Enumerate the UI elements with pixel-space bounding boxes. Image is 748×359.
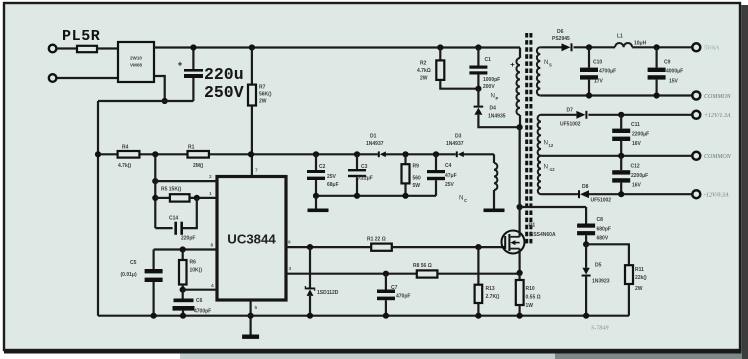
svg-text:C: C — [464, 198, 467, 203]
svg-text:C2: C2 — [319, 164, 326, 170]
svg-text:2.7K(): 2.7K() — [486, 294, 500, 300]
wire — [251, 106, 253, 177]
wire — [588, 114, 691, 116]
svg-text:8: 8 — [211, 243, 214, 249]
svg-text:17V: 17V — [594, 79, 604, 85]
svg-text:0.55 Ω: 0.55 Ω — [526, 295, 541, 301]
svg-text:D3: D3 — [455, 134, 462, 140]
junction — [618, 153, 624, 159]
svg-text:3: 3 — [289, 266, 292, 272]
capacitor C1 1000pF 200V — [475, 44, 481, 50]
svg-text:12: 12 — [549, 143, 554, 148]
svg-text:16V: 16V — [632, 141, 642, 147]
svg-text:SSS4N60A: SSS4N60A — [530, 232, 556, 238]
transformer primary winding Np — [519, 48, 521, 59]
node output COMMON — [692, 92, 700, 100]
svg-text:220u: 220u — [204, 65, 244, 84]
junction — [313, 193, 319, 199]
svg-text:UF51002: UF51002 — [591, 198, 612, 204]
wire — [632, 46, 692, 48]
ground pin5 — [242, 335, 259, 339]
svg-text:C9: C9 — [664, 60, 671, 66]
svg-text:2: 2 — [209, 174, 212, 180]
wire VCC rail — [98, 153, 118, 155]
svg-text:4000μF: 4000μF — [666, 69, 683, 75]
resistor R1 2M — [188, 151, 209, 158]
pin 3 sense wire — [286, 273, 417, 275]
junction source — [517, 270, 523, 276]
junction — [95, 151, 101, 157]
bridge rectifier 2W10 — [118, 42, 154, 82]
op-amp U1 UC3844 — [217, 177, 286, 301]
svg-text:2W: 2W — [259, 99, 267, 105]
transformer secondary Ns — [537, 47, 540, 95]
transformer secondary N-12 — [538, 156, 541, 194]
junction — [180, 313, 186, 319]
resistor R5 15K — [152, 195, 158, 201]
svg-text:4: 4 — [211, 283, 214, 289]
svg-text:25V: 25V — [327, 174, 337, 180]
svg-text:D7: D7 — [567, 108, 574, 114]
resistor R7 56K 2W startup — [249, 44, 255, 50]
svg-text:R6: R6 — [190, 260, 197, 266]
capacitor C12 2200uF 16V — [620, 156, 622, 170]
wire + HV rail — [154, 46, 520, 48]
diode D7 UF51002 — [541, 114, 576, 116]
junction — [151, 313, 157, 319]
capacitor C6 4700pF — [182, 290, 184, 299]
svg-text:4700μF: 4700μF — [599, 69, 616, 75]
junction — [190, 44, 196, 50]
junction — [618, 112, 624, 118]
capacitor C5 0.01uF — [153, 250, 155, 270]
svg-text:N: N — [544, 164, 548, 171]
diode D3 1N4937 — [458, 151, 464, 157]
wire HV minus rail — [98, 100, 193, 102]
svg-text:C12: C12 — [631, 164, 640, 170]
wire bridge minus lead — [154, 76, 165, 101]
svg-text:R5 15K(): R5 15K() — [161, 187, 182, 193]
svg-text:C3: C3 — [361, 164, 368, 170]
svg-text:R7: R7 — [259, 85, 266, 91]
svg-text:560: 560 — [413, 176, 422, 182]
svg-text:10μH: 10μH — [634, 41, 647, 47]
svg-text:C5: C5 — [130, 260, 137, 266]
fusible resistor PL5R — [77, 46, 97, 52]
svg-text:C6: C6 — [196, 298, 203, 304]
capacitor C9 4000uF — [655, 47, 657, 67]
wire bottom rail — [98, 315, 629, 317]
junction — [354, 193, 360, 199]
svg-text:VM08: VM08 — [130, 63, 142, 68]
svg-text:1: 1 — [209, 191, 212, 197]
svg-text:P: P — [496, 96, 499, 101]
zener HSD112D — [307, 244, 313, 250]
svg-text:N: N — [544, 140, 548, 147]
svg-text:10K(): 10K() — [190, 268, 203, 274]
wire — [97, 47, 118, 49]
svg-text:R9: R9 — [413, 164, 420, 170]
svg-text:5V/6A: 5V/6A — [704, 46, 719, 52]
svg-text:COMMON: COMMON — [704, 94, 732, 100]
svg-text:Q1: Q1 — [529, 223, 536, 229]
svg-text:1000pF: 1000pF — [483, 77, 500, 83]
svg-text:R13: R13 — [486, 286, 495, 292]
svg-text:R1 22 Ω: R1 22 Ω — [367, 236, 386, 242]
resistor R6 10K — [180, 246, 186, 252]
svg-text:COMMON: COMMON — [704, 154, 732, 160]
svg-text:250V: 250V — [204, 83, 244, 102]
pin 5 ground wire — [250, 300, 252, 335]
winding Nc bias — [493, 154, 495, 163]
svg-text:47μF: 47μF — [445, 173, 457, 179]
svg-text:6: 6 — [288, 240, 291, 246]
junction — [248, 313, 254, 319]
svg-text:PS2945: PS2945 — [552, 36, 570, 42]
svg-text:D6: D6 — [557, 29, 564, 35]
node output -12V/0.3A — [692, 190, 700, 198]
svg-text:680pF: 680pF — [597, 227, 611, 233]
svg-text:5: 5 — [255, 305, 258, 311]
capacitor C2 68uF 25V — [313, 151, 319, 157]
junction — [586, 92, 592, 98]
svg-text:2W: 2W — [635, 286, 643, 292]
junction — [654, 92, 660, 98]
svg-text:+12V/1.3A: +12V/1.3A — [704, 113, 731, 119]
svg-text:UC3844: UC3844 — [227, 232, 276, 247]
wire sub rail — [316, 195, 436, 197]
svg-text:R4: R4 — [122, 144, 129, 150]
ground under Nc — [484, 209, 505, 213]
resistor R9 560 5W — [402, 151, 408, 157]
svg-text:1SD112D: 1SD112D — [317, 290, 339, 296]
node AC input terminal 2 — [49, 74, 57, 82]
svg-text:2200μF: 2200μF — [631, 173, 648, 179]
svg-text:N: N — [459, 195, 463, 202]
ground under C2 — [315, 196, 317, 209]
svg-text:+: + — [178, 60, 183, 69]
pin 8 wire VREF — [154, 248, 217, 250]
svg-text:4.7k(): 4.7k() — [118, 163, 131, 169]
svg-text:N: N — [544, 59, 548, 66]
svg-text:-12: -12 — [549, 167, 556, 172]
capacitor C8 680pF 680V — [577, 224, 595, 228]
svg-text:C14: C14 — [169, 216, 178, 222]
pin 2 wire — [152, 178, 158, 184]
transistor Q1 MOSFET — [517, 204, 523, 210]
resistor R10 0.55ohm 1W — [518, 273, 520, 280]
svg-text:1N3923: 1N3923 — [592, 279, 610, 285]
svg-text:C11: C11 — [631, 122, 640, 128]
svg-text:R2: R2 — [420, 61, 427, 67]
svg-text:2W10: 2W10 — [130, 56, 142, 61]
svg-text:1N4937: 1N4937 — [366, 141, 384, 147]
diode D1 1N4937 — [380, 151, 386, 157]
capacitor C4 47uF 25V — [433, 151, 439, 157]
diode D5 1N3923 — [585, 244, 587, 267]
wire — [57, 47, 77, 49]
svg-text:22k(): 22k() — [635, 275, 647, 281]
capacitor 220u 250V — [192, 48, 194, 70]
svg-text:4.7kΩ: 4.7kΩ — [417, 68, 431, 74]
node output 5V/6A — [692, 43, 700, 51]
wire common row — [540, 94, 692, 96]
svg-text:5W: 5W — [413, 183, 421, 189]
svg-text:-12V/0.3A: -12V/0.3A — [704, 193, 729, 199]
pin 4 wire — [183, 289, 217, 291]
junction — [583, 241, 589, 247]
svg-text:D8: D8 — [582, 184, 589, 190]
svg-text:+: + — [510, 60, 515, 69]
junction — [517, 124, 523, 130]
junction — [162, 98, 168, 104]
svg-text:R11: R11 — [635, 267, 644, 273]
diode D4 clamp — [477, 89, 479, 106]
junction — [586, 44, 592, 50]
svg-text:C7: C7 — [391, 285, 398, 291]
resistor R2 4.7k 2W — [437, 44, 443, 50]
capacitor C7 470pF — [383, 271, 389, 277]
wire left bus down — [97, 101, 99, 316]
svg-text:D4: D4 — [490, 106, 497, 112]
node output COMMON 2 — [692, 152, 700, 160]
resistor R8 56ohm — [417, 270, 438, 277]
inductor L1 — [615, 43, 632, 47]
svg-text:16V: 16V — [632, 182, 642, 188]
svg-text:2W: 2W — [420, 76, 428, 82]
wire — [574, 46, 616, 48]
wire drain branch — [520, 206, 587, 208]
junction — [654, 44, 660, 50]
capacitor C14 220pF — [155, 227, 172, 229]
svg-text:2M(): 2M() — [193, 163, 204, 169]
frame shadow right — [741, 5, 748, 359]
svg-text:UF51002: UF51002 — [560, 122, 581, 128]
svg-text:R10: R10 — [526, 286, 535, 292]
svg-text:C4: C4 — [445, 163, 452, 169]
svg-text:68μF: 68μF — [327, 182, 339, 188]
node AC input terminal 1 — [49, 45, 57, 53]
resistor R1 22ohm gate — [371, 244, 392, 251]
svg-text:L1: L1 — [617, 34, 623, 40]
svg-text:680V: 680V — [597, 236, 609, 242]
junction node FB — [152, 151, 158, 157]
svg-text:S-7849: S-7849 — [591, 325, 609, 332]
svg-text:25V: 25V — [445, 182, 455, 188]
svg-text:S: S — [549, 62, 552, 67]
resistor R4 4.7k — [118, 151, 140, 158]
svg-text:7: 7 — [255, 168, 258, 174]
svg-text:D5: D5 — [595, 263, 602, 269]
wire — [57, 77, 118, 79]
svg-text:N: N — [491, 93, 495, 100]
pin 6 gate wire — [286, 246, 371, 248]
junction VCC — [248, 151, 254, 157]
svg-text:4700pF: 4700pF — [194, 309, 211, 315]
diode D8 UF51002 — [541, 193, 578, 195]
svg-text:(0.01μ): (0.01μ) — [121, 272, 137, 278]
capacitor C10 4700uF — [588, 47, 590, 67]
frame shadow bottom — [180, 354, 560, 359]
capacitor C11 2200uF 16V — [620, 115, 622, 129]
svg-text:220pF: 220pF — [181, 236, 195, 242]
wire FB vertical — [154, 154, 156, 228]
svg-text:470pF: 470pF — [396, 294, 410, 300]
svg-text:C1: C1 — [485, 57, 492, 63]
resistor R13 gate bleeder — [475, 244, 481, 250]
svg-text:200V: 200V — [483, 84, 495, 90]
svg-text:56K(): 56K() — [259, 92, 272, 98]
svg-text:C10: C10 — [593, 60, 602, 66]
wire mid common row — [541, 155, 692, 157]
svg-text:0.22μF: 0.22μF — [357, 176, 373, 182]
wire — [589, 193, 692, 195]
svg-text:D1: D1 — [370, 134, 377, 140]
svg-text:PL5R: PL5R — [62, 28, 100, 45]
svg-text:15V: 15V — [669, 79, 679, 85]
svg-text:2200μF: 2200μF — [632, 132, 649, 138]
diode D6 PS2945 — [540, 46, 561, 48]
svg-text:C8: C8 — [597, 217, 604, 223]
transformer secondary N12 — [538, 115, 541, 156]
node output +12V/1.3A — [692, 111, 700, 119]
svg-text:1N4935: 1N4935 — [488, 114, 506, 120]
svg-text:R1: R1 — [188, 144, 195, 150]
svg-text:1N4937: 1N4937 — [446, 141, 464, 147]
capacitor C3 0.22uF — [354, 151, 360, 157]
svg-text:R8 56 Ω: R8 56 Ω — [413, 263, 432, 269]
resistor R11 — [586, 244, 629, 265]
junction — [618, 191, 624, 197]
svg-text:1W: 1W — [526, 303, 534, 309]
transformer core — [525, 33, 528, 244]
